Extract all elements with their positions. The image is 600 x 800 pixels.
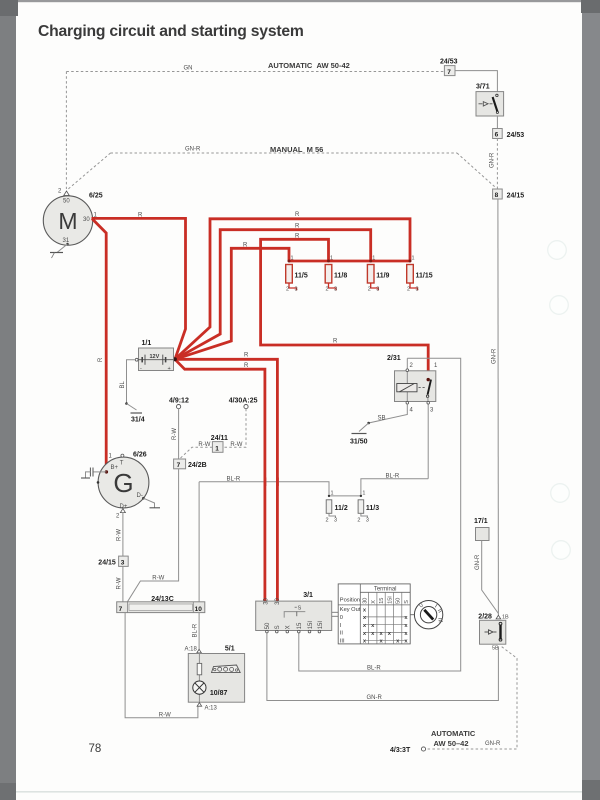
binder hole 2: [550, 296, 569, 315]
svg-text:8: 8: [495, 192, 499, 199]
svg-text:2: 2: [368, 287, 371, 293]
wire GN-R ignition 50 to 2/28 5B: [267, 633, 499, 701]
switch 3/71 actuator symbol: [479, 103, 483, 105]
svg-text:SB: SB: [378, 416, 386, 422]
svg-text:+: +: [168, 366, 171, 372]
cluster fuse: [197, 663, 202, 674]
svg-text:B+: B+: [111, 465, 119, 471]
pin A:13 triangle: [197, 703, 202, 707]
svg-text:1: 1: [215, 445, 219, 452]
svg-text:15I: 15I: [308, 621, 314, 630]
svg-text:R: R: [138, 213, 143, 219]
binder hole 3: [551, 484, 570, 503]
connector 17/1 body: [476, 528, 490, 541]
svg-text:G: G: [113, 468, 133, 498]
svg-text:1: 1: [362, 491, 365, 497]
svg-text:4/30A:25: 4/30A:25: [229, 398, 258, 405]
svg-text:24/15: 24/15: [507, 193, 525, 200]
wire GN dashed vertical to M pin 2: [65, 72, 67, 190]
svg-text:5B: 5B: [492, 646, 499, 652]
svg-text:R: R: [295, 224, 300, 230]
battery body: [139, 348, 174, 371]
svg-text:BL-R: BL-R: [193, 623, 199, 637]
svg-text:1: 1: [331, 491, 334, 497]
svg-text:S: S: [404, 600, 410, 604]
fuse 11/15: [407, 256, 433, 293]
svg-text:11/5: 11/5: [295, 273, 308, 280]
fuse 11/3: [357, 491, 379, 524]
battery minus pin: [135, 358, 138, 361]
svg-text:R: R: [243, 242, 248, 248]
relay coil: [397, 384, 417, 392]
svg-text:30: 30: [264, 597, 270, 604]
svg-text:10: 10: [195, 606, 203, 613]
wire from box 8 down to 2/28 pin 1B: [497, 199, 500, 619]
svg-text:30: 30: [83, 217, 90, 223]
ignition switch body: [256, 601, 332, 630]
wire R battery to fuse 11/5: [175, 248, 289, 359]
generator body: [98, 457, 149, 508]
svg-text:3: 3: [334, 518, 337, 524]
switch 2/28 actuator symbol: [485, 631, 489, 633]
svg-text:R-W: R-W: [152, 576, 164, 582]
svg-text:6/25: 6/25: [89, 193, 103, 200]
svg-text:24/11: 24/11: [211, 435, 228, 442]
svg-text:3/1: 3/1: [303, 592, 313, 599]
battery internal symbol: [139, 359, 174, 361]
svg-text:2: 2: [326, 518, 329, 524]
wire dashed 2/28 5B to 4/3:3T: [426, 647, 517, 749]
svg-text:Terminal: Terminal: [374, 587, 397, 593]
wire R battery to ignition 30 (right): [175, 359, 278, 601]
svg-text:11/15: 11/15: [416, 273, 433, 280]
svg-text:11/9: 11/9: [376, 273, 389, 280]
binder hole 1: [548, 241, 567, 260]
svg-text:S: S: [298, 606, 302, 612]
connector box 7 (24/53): [444, 66, 455, 76]
bottom page edge line: [16, 791, 582, 793]
svg-text:2/28: 2/28: [478, 613, 492, 620]
wire relay pin 4 to ground 31/50: [369, 404, 408, 423]
table header separator: [338, 604, 410, 606]
svg-text:2: 2: [326, 287, 329, 293]
wire BL battery to ground 31/4: [127, 360, 136, 404]
svg-text:BL-R: BL-R: [386, 473, 400, 479]
wire R-W from D+ down through 24/15 to 24/13C: [122, 513, 124, 557]
svg-text:GN: GN: [184, 66, 193, 72]
svg-text:GN-R: GN-R: [489, 152, 495, 168]
svg-text:0: 0: [340, 615, 343, 621]
svg-text:11/2: 11/2: [335, 505, 348, 512]
left page edge strip: [0, 0, 16, 800]
svg-text:3: 3: [334, 287, 337, 293]
wire red overdraw at BL-R crossings: [263, 478, 266, 487]
ignition key symbol: [414, 601, 442, 629]
svg-text:R: R: [333, 339, 338, 345]
svg-text:17/1: 17/1: [474, 518, 488, 525]
svg-text:10/87: 10/87: [210, 690, 228, 697]
svg-text:15I: 15I: [387, 596, 393, 604]
wire R battery to fuse 11/15: [175, 219, 410, 359]
svg-text:4/9:12: 4/9:12: [169, 398, 189, 405]
svg-text:R: R: [295, 234, 300, 240]
svg-text:11/3: 11/3: [366, 505, 379, 512]
svg-text:X: X: [371, 600, 377, 604]
svg-text:R: R: [295, 212, 300, 218]
svg-text:30: 30: [275, 597, 281, 604]
fuse 11/9: [367, 256, 389, 293]
relay link dashes: [419, 387, 426, 389]
internal S symbol: [284, 612, 305, 618]
svg-text:T: T: [120, 461, 124, 467]
generator pin T: [121, 454, 124, 457]
svg-text:GN-R: GN-R: [485, 741, 501, 747]
svg-text:R-W: R-W: [116, 529, 122, 541]
wire dashed from 4/30A:25 to 24/11: [223, 409, 246, 448]
svg-text:D-: D-: [137, 493, 143, 499]
connector box 8 (24/15): [493, 189, 503, 199]
wire relay pin 2 to ignition 15 (BL-R): [299, 358, 461, 671]
wire GN dashed horizontal: [66, 71, 444, 73]
svg-text:1/1: 1/1: [142, 340, 152, 347]
wire dashed diagonal down to M pin 2: [67, 153, 111, 190]
switch 3/71 blade: [493, 97, 498, 112]
svg-text:BL-R: BL-R: [367, 665, 381, 671]
svg-text:R: R: [98, 357, 104, 362]
svg-text:30: 30: [363, 598, 369, 604]
svg-text:1: 1: [291, 256, 294, 262]
suppressor capacitor to ground: [94, 471, 107, 473]
svg-text:X: X: [286, 625, 292, 629]
motor pin 2 triangle: [64, 191, 70, 196]
wire R from M pin 1 to junction, down to battery node: [92, 218, 186, 359]
wire fuse 11/2-11/3 pin 1 bus: [329, 495, 361, 497]
link to position table: [332, 611, 339, 613]
svg-text:R: R: [244, 363, 249, 369]
svg-text:50: 50: [265, 622, 271, 629]
svg-text:R-W: R-W: [116, 577, 122, 589]
svg-text:Position: Position: [340, 598, 360, 604]
svg-text:12V: 12V: [150, 354, 160, 360]
svg-text:II: II: [340, 631, 344, 637]
wire dashed from 24/11 to 24/2B: [180, 447, 212, 458]
wire R-W loop from 24/13C pin 7 to cluster A:13: [125, 613, 198, 718]
wire R fuse pin-1 bus: [289, 260, 410, 263]
svg-text:4/3:3T: 4/3:3T: [390, 747, 411, 754]
svg-text:7: 7: [119, 606, 123, 613]
row III marks: [365, 639, 407, 641]
wire GN-R dashed manual horizontal: [111, 152, 458, 154]
svg-text:GN-R: GN-R: [185, 147, 201, 153]
svg-text:BL: BL: [120, 380, 126, 388]
svg-text:AUTOMATIC AW 50-42: AUTOMATIC AW 50-42: [268, 61, 350, 70]
wire relay pin 3 to fuse 11/3: [361, 479, 428, 496]
wire R-W down from 4/9:12: [178, 409, 180, 459]
wire 3/71 to box 6: [496, 116, 498, 129]
top corner darks: [0, 0, 18, 16]
wire R fuse 11/8 to relay 2/31 pin 1: [261, 239, 429, 379]
svg-text:31/4: 31/4: [131, 417, 145, 424]
svg-text:3: 3: [416, 287, 419, 293]
switch 2/28 contact bar: [499, 625, 501, 640]
wire R from M to generator B+: [92, 219, 106, 472]
svg-text:50: 50: [63, 199, 70, 205]
svg-text:R: R: [244, 353, 249, 359]
cluster internal wire: [198, 654, 200, 703]
svg-text:50: 50: [396, 598, 402, 604]
svg-text:2: 2: [407, 287, 410, 293]
svg-text:24/15: 24/15: [98, 560, 116, 567]
ground 31/4: [125, 402, 128, 405]
fuse 11/2: [326, 491, 348, 524]
svg-text:11/8: 11/8: [334, 273, 347, 280]
cluster body: [188, 654, 244, 703]
svg-text:6/26: 6/26: [133, 452, 147, 459]
cluster panel icon: [212, 665, 241, 673]
connector box 3 (24/15): [119, 556, 129, 566]
connector box 1 (24/11): [212, 442, 223, 453]
relay pin 1 dot: [427, 378, 430, 381]
switch 3/71 body: [476, 92, 504, 116]
svg-text:2: 2: [357, 518, 360, 524]
table column lines: [359, 584, 361, 644]
motor M body: [43, 196, 92, 245]
motor ground lead: [66, 243, 68, 245]
bulb 10/87: [193, 681, 206, 694]
svg-text:1B: 1B: [502, 614, 509, 620]
relay pin 3: [427, 397, 429, 478]
row I marks: [365, 624, 407, 626]
svg-text:24/53: 24/53: [507, 132, 525, 139]
wire GN-R from 17/1 to 2/28 pin 1B: [482, 541, 499, 614]
pin 1B: [496, 615, 501, 619]
svg-text:AUTOMATIC: AUTOMATIC: [431, 729, 476, 738]
svg-text:6: 6: [495, 132, 499, 139]
svg-text:3: 3: [295, 287, 298, 293]
svg-text:31/50: 31/50: [350, 439, 368, 446]
wire BL-R from pin 10 up to bulb feed line: [198, 482, 200, 602]
row II marks: [365, 632, 407, 634]
connector box 6 (24/53): [493, 129, 503, 139]
svg-text:15: 15: [379, 598, 385, 604]
ground bar (31): [50, 252, 63, 254]
wire R-W from 24/2B down to 24/13C pin 7: [127, 469, 178, 602]
svg-text:R-W: R-W: [198, 442, 210, 448]
fuse 11/5: [286, 256, 308, 293]
svg-text:M: M: [58, 208, 77, 234]
svg-text:Charging circuit and starting: Charging circuit and starting system: [38, 23, 304, 40]
relay pin 2-4 line: [406, 358, 408, 404]
svg-text:AW 50–42: AW 50–42: [434, 739, 469, 748]
svg-text:1: 1: [412, 256, 415, 262]
svg-text:78: 78: [89, 743, 102, 755]
svg-text:III: III: [340, 638, 345, 644]
svg-text:3: 3: [376, 287, 379, 293]
switch 3/71 contact circle: [496, 94, 498, 96]
svg-text:GN-R: GN-R: [367, 695, 383, 701]
svg-text:3: 3: [366, 518, 369, 524]
svg-text:A:13: A:13: [205, 706, 218, 712]
right page edge strip: [582, 0, 600, 800]
wire BL-R from pin 10 down to cluster A:18: [198, 613, 200, 653]
node 4/3:3T: [421, 747, 425, 751]
svg-text:15I: 15I: [318, 621, 324, 630]
svg-text:-: -: [140, 366, 142, 372]
svg-text:5/1: 5/1: [225, 646, 235, 653]
bottom pin circles: [266, 630, 269, 633]
svg-text:15: 15: [297, 622, 303, 629]
svg-text:2/31: 2/31: [387, 355, 401, 362]
connector box 7 (24/2B): [174, 459, 186, 469]
svg-text:MANUAL M 56: MANUAL M 56: [270, 145, 323, 154]
wire R battery to fuse 11/9: [175, 230, 371, 360]
svg-text:R-W: R-W: [230, 442, 242, 448]
wire dashed diagonal to box 8: [457, 153, 495, 187]
svg-text:R-W: R-W: [159, 712, 171, 718]
svg-text:A:18: A:18: [185, 646, 198, 652]
svg-text:7: 7: [447, 69, 451, 76]
svg-text:24/2B: 24/2B: [188, 462, 207, 469]
wire from box 7 to 3/71: [455, 71, 497, 92]
wire R battery to ignition 30 (left): [175, 359, 265, 601]
top page edge line: [0, 0, 600, 2]
bottom corner darks: [0, 783, 16, 800]
binder hole 4: [552, 541, 571, 560]
svg-text:24/53: 24/53: [440, 59, 458, 66]
table frame: [338, 584, 410, 644]
svg-text:GN-R: GN-R: [475, 554, 481, 570]
svg-text:31: 31: [63, 238, 70, 244]
fuse 11/8: [325, 256, 347, 293]
svg-text:BL-R: BL-R: [227, 476, 241, 482]
svg-text:S: S: [275, 625, 281, 629]
svg-text:3: 3: [121, 560, 125, 567]
svg-text:1: 1: [330, 256, 333, 262]
svg-text:7: 7: [177, 462, 181, 469]
connector 24/13C body: [117, 602, 205, 613]
node battery + junction: [173, 357, 177, 361]
row 0 marks: [365, 616, 407, 618]
ground 31/50: [367, 422, 370, 425]
switch 2/28 body: [480, 620, 506, 644]
svg-text:2: 2: [286, 287, 289, 293]
svg-text:1: 1: [372, 256, 375, 262]
svg-text:3/71: 3/71: [476, 84, 490, 91]
svg-text:R-W: R-W: [172, 428, 178, 440]
svg-text:Key Out: Key Out: [340, 607, 361, 613]
wire BL-R cluster feed to fuse 11/2: [199, 482, 329, 496]
relay blade: [428, 380, 431, 395]
pin A:18 triangle: [197, 649, 202, 653]
relay body: [395, 371, 436, 402]
wire dashed GN-R from box 6 to box 8: [496, 139, 498, 190]
key symbol link: [410, 614, 414, 616]
svg-text:GN-R: GN-R: [492, 348, 498, 364]
